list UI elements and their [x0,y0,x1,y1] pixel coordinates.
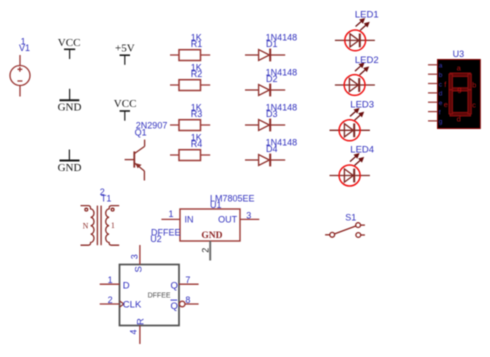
pin 7 wire (Q) [179,283,199,285]
ground GND (lower) [60,150,80,161]
clock triangle [120,301,124,307]
svg-text:S: S [134,266,145,272]
svg-text:1: 1 [111,221,115,230]
svg-text:e: e [439,100,443,107]
svg-text:LED4: LED4 [350,145,374,156]
D flip-flop U2 [100,245,199,344]
power VCC (top left) [64,49,75,59]
svg-text:Q: Q [171,301,178,312]
svg-text:GND: GND [58,102,82,114]
svg-text:f: f [439,109,441,116]
svg-text:D4: D4 [266,144,278,154]
svg-text:CLK: CLK [123,300,142,311]
pin e [428,101,438,103]
svg-text:N: N [83,222,89,231]
svg-text:V1: V1 [19,43,30,53]
svg-text:3: 3 [246,211,251,221]
svg-text:VCC: VCC [58,37,81,49]
transistor Q2N2907 Q1 [125,140,145,181]
pin c [428,83,438,85]
svg-text:2: 2 [108,295,113,305]
resistor R4 [170,150,210,161]
svg-text:U1: U1 [210,200,222,210]
svg-text:d: d [439,91,443,98]
svg-text:D1: D1 [266,39,278,49]
segments figure 8 [449,73,471,116]
svg-text:D3: D3 [266,109,278,119]
pin 1 wire (D) [100,283,120,285]
svg-text:g: g [439,119,443,126]
svg-text:D: D [123,280,130,291]
pin 8 wire (Qbar) with bubble [179,301,185,307]
svg-text:R1: R1 [191,39,203,49]
pin 2 wire (CLK) [100,303,120,305]
svg-text:1: 1 [108,275,113,285]
svg-text:e: e [444,100,448,109]
pin 4 wire (R) [139,326,141,345]
svg-text:GND: GND [58,162,82,174]
svg-text:R3: R3 [191,109,203,119]
svg-text:7: 7 [185,275,190,285]
pin f [428,111,438,113]
svg-text:S1: S1 [345,213,356,223]
power VCC (second) [120,111,130,121]
pin 1 wire [161,218,180,220]
svg-text:g: g [457,84,461,93]
svg-text:2: 2 [200,248,210,253]
LED LED3 [330,109,370,141]
pin 3 wire (S) [139,245,141,265]
svg-text:d: d [457,115,461,124]
pin 3 wire [240,218,259,220]
LED LED4 [330,154,370,186]
LED LED1 [335,19,375,51]
diode D3 [245,119,285,132]
resistor R3 [170,120,210,131]
transformer T1 [81,206,120,246]
svg-text:+5V: +5V [115,42,135,54]
svg-text:VCC: VCC [114,98,137,110]
ground GND (upper) [60,89,80,101]
switch S1 [325,223,365,238]
svg-text:DFFEE: DFFEE [148,292,171,299]
pin a [428,64,438,66]
svg-text:1: 1 [169,209,174,219]
svg-text:4: 4 [128,329,138,334]
seven-segment display U3 [428,60,480,129]
resistor R1 [170,50,210,61]
svg-text:b: b [439,72,443,79]
pin 2 wire (gray) [209,241,211,261]
power +5V [120,55,130,65]
diode D2 [245,84,285,97]
svg-text:D2: D2 [266,74,278,84]
pin b [428,73,438,75]
svg-text:Q: Q [171,280,178,291]
svg-text:IN: IN [185,215,194,225]
svg-text:LED3: LED3 [350,100,374,111]
pin d [428,92,438,94]
svg-text:8: 8 [185,295,190,305]
pin g [428,120,438,122]
svg-text:R: R [136,318,147,325]
svg-text:T1: T1 [101,193,112,203]
svg-text:U3: U3 [453,49,465,59]
resistor R2 [170,80,210,91]
svg-text:GND: GND [201,231,222,241]
svg-text:LED1: LED1 [355,9,379,20]
svg-text:U2: U2 [150,234,162,244]
LED LED2 [335,64,375,96]
diode D1 [245,49,285,62]
svg-text:a: a [439,63,443,70]
svg-text:R2: R2 [191,69,203,79]
diode D4 [245,154,285,167]
svg-text:R4: R4 [191,139,203,149]
svg-text:OUT: OUT [218,215,238,225]
svg-text:Q1: Q1 [135,127,147,137]
regulator U1 LM7805 [161,209,259,261]
voltage source V1 [10,55,30,97]
svg-text:3: 3 [130,254,140,259]
svg-text:c: c [472,100,476,109]
svg-text:LED2: LED2 [355,55,379,66]
svg-text:b: b [472,80,476,89]
